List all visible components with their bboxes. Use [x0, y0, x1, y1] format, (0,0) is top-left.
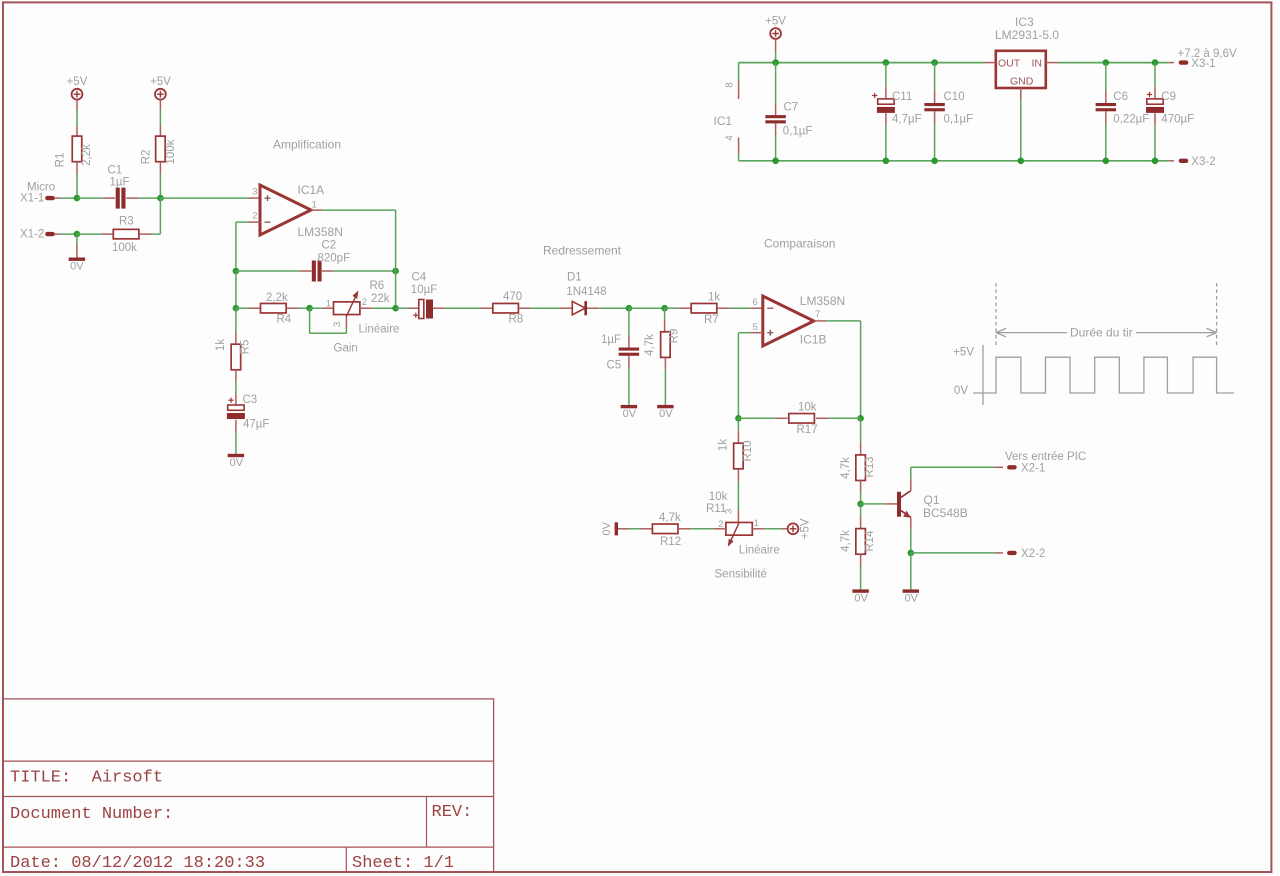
svg-text:C1: C1 — [108, 165, 123, 177]
resistor R14 — [856, 529, 866, 555]
node micro junction — [74, 195, 81, 202]
wire R3 to R2 node — [139, 233, 151, 235]
svg-text:1N4148: 1N4148 — [566, 286, 606, 298]
wire Q1 collector up — [910, 479, 912, 491]
ground 0V (R9) — [657, 405, 673, 408]
svg-text:2: 2 — [252, 211, 257, 222]
node C5 — [626, 305, 633, 312]
connector pad X1-2 — [45, 232, 55, 236]
wire C11 top — [885, 63, 887, 87]
svg-text:Durée du tir: Durée du tir — [1070, 326, 1133, 340]
power +5V supply symbol (R11) — [788, 523, 799, 534]
resistor R8 — [493, 303, 519, 313]
wire R8 to D1 — [518, 307, 530, 309]
svg-text:+5V: +5V — [765, 16, 786, 28]
svg-text:LM358N: LM358N — [800, 294, 845, 308]
svg-text:R17: R17 — [797, 424, 818, 436]
svg-text:10µF: 10µF — [411, 284, 437, 296]
wire base node to Q1 — [861, 503, 885, 505]
wire C7 top — [775, 63, 777, 103]
wire GND pin — [1020, 88, 1022, 100]
op-amp IC1A plus input mark — [265, 197, 271, 199]
transistor Q1 — [897, 492, 901, 517]
svg-text:X3-2: X3-2 — [1191, 156, 1215, 168]
title block REV divider — [426, 797, 428, 848]
op-amp IC1A minus input mark — [265, 221, 271, 223]
wire C6 top — [1105, 63, 1107, 91]
svg-text:X1-2: X1-2 — [20, 229, 44, 241]
svg-text:0V: 0V — [659, 408, 673, 420]
svg-text:R12: R12 — [660, 536, 681, 548]
svg-text:R13: R13 — [864, 456, 876, 477]
capacitor C11 polarized — [878, 99, 894, 104]
node emitter — [908, 550, 915, 557]
wire top rail left segment — [739, 62, 984, 64]
svg-text:2,2k: 2,2k — [81, 144, 93, 166]
node R4-R5 — [233, 305, 240, 312]
capacitor C10 — [924, 103, 944, 106]
wire IC1A output — [311, 209, 322, 211]
node R17 left — [735, 415, 742, 422]
wire top rail right segment — [1058, 62, 1169, 64]
wire C9 top — [1154, 63, 1156, 87]
node GND bottom — [1018, 158, 1025, 165]
op-amp IC1B minus input mark — [767, 307, 773, 309]
wire R9 down — [664, 308, 666, 319]
op-amp IC1B plus input mark — [767, 332, 773, 334]
svg-text:0V: 0V — [70, 261, 84, 273]
wire feedback to C2 — [236, 270, 300, 272]
svg-text:0V: 0V — [954, 385, 968, 397]
capacitor C6 — [1096, 103, 1116, 106]
svg-text:R7: R7 — [704, 314, 719, 326]
svg-text:C3: C3 — [243, 394, 258, 406]
svg-text:0,1µF: 0,1µF — [944, 114, 974, 126]
svg-text:+5V: +5V — [150, 76, 171, 88]
node R17 right — [857, 415, 864, 422]
svg-text:Sensibilité: Sensibilité — [715, 569, 767, 581]
node base — [857, 501, 864, 508]
node X1-2 junction — [74, 231, 81, 238]
svg-text:6: 6 — [753, 297, 758, 308]
svg-text:4,7k: 4,7k — [840, 530, 852, 552]
svg-text:LM358N: LM358N — [298, 225, 343, 239]
svg-text:X2-2: X2-2 — [1021, 548, 1045, 560]
svg-text:1µF: 1µF — [601, 334, 621, 346]
node C6 top — [1103, 59, 1110, 66]
svg-text:22k: 22k — [371, 293, 390, 305]
svg-text:Sheet: 1/1: Sheet: 1/1 — [352, 854, 454, 873]
svg-text:4,7k: 4,7k — [659, 512, 681, 524]
svg-text:IC1: IC1 — [714, 114, 733, 128]
wire D1 to C5 node — [587, 307, 599, 309]
wire R10 down — [737, 418, 739, 430]
svg-text:10k: 10k — [798, 401, 817, 413]
wire node to C1 — [77, 197, 103, 199]
wire R12 to pot R11 pin2 — [678, 528, 690, 530]
title block line above TITLE row — [3, 760, 494, 762]
svg-text:470: 470 — [503, 291, 522, 303]
node feedback left — [233, 268, 240, 275]
wire R4 to pot node — [286, 307, 298, 309]
ground 0V (input) — [69, 258, 85, 261]
regulator IC3 box — [996, 51, 1046, 88]
wire R9 node to R7 — [665, 307, 679, 309]
wire C3 to ground — [235, 420, 237, 432]
svg-text:0,1µF: 0,1µF — [783, 126, 813, 138]
svg-text:IC3: IC3 — [1015, 15, 1034, 29]
power +5V supply symbol (R2) — [155, 89, 166, 100]
svg-text:IN: IN — [1032, 58, 1043, 70]
wire C5 node to R9 node — [629, 307, 665, 309]
node C7 top — [772, 59, 779, 66]
wire C7 bottom — [775, 123, 777, 135]
title block Sheet divider — [345, 847, 347, 872]
svg-text:IC1A: IC1A — [298, 183, 325, 197]
op-amp IC1A — [260, 185, 311, 235]
wire R9 to ground — [664, 357, 666, 369]
svg-text:0V: 0V — [623, 408, 637, 420]
wire +5V to top rail — [775, 39, 777, 51]
wire R7 to IC1B pin6 — [717, 307, 729, 309]
svg-text:Amplification: Amplification — [273, 138, 341, 152]
wire C1 to node R2 — [126, 197, 138, 199]
capacitor C7 — [765, 115, 785, 118]
node C10 bottom — [931, 158, 938, 165]
svg-text:1: 1 — [326, 299, 331, 310]
node C9 top — [1152, 59, 1159, 66]
connector pad X3-1 — [1179, 60, 1189, 64]
wire +5V to R2 — [159, 100, 161, 110]
waveform pulse train — [973, 357, 1234, 393]
svg-text:2: 2 — [362, 297, 367, 308]
title block outline — [3, 699, 494, 872]
resistor R13 — [856, 455, 866, 481]
wire R5 to C3 — [235, 370, 237, 382]
wire C4 to R8 — [433, 307, 445, 309]
svg-text:R4: R4 — [277, 314, 292, 326]
svg-text:+5V: +5V — [800, 518, 812, 539]
wire R5 down — [235, 308, 237, 332]
wire feedback left down — [235, 271, 237, 308]
ground 0V (Q1) — [903, 589, 919, 592]
wire R14 down — [860, 504, 862, 516]
connector pad X2-2 — [1007, 551, 1017, 555]
wire C5 down — [628, 308, 630, 335]
svg-text:D1: D1 — [567, 272, 582, 284]
svg-text:IC1B: IC1B — [800, 333, 827, 347]
node R2 junction — [157, 195, 164, 202]
waveform dashed line left — [995, 283, 997, 346]
resistor R17 — [789, 414, 815, 424]
svg-text:10k: 10k — [709, 491, 728, 503]
node feedback right — [392, 268, 399, 275]
wire node to IC1A pin3 — [160, 197, 248, 199]
resistor R5 — [231, 344, 241, 370]
ground 0V rotated (R12) — [615, 522, 618, 535]
wire IC1B pin5 left — [751, 332, 763, 334]
svg-text:1: 1 — [312, 200, 317, 211]
svg-text:3: 3 — [252, 187, 257, 198]
svg-text:4,7k: 4,7k — [644, 334, 656, 356]
power +5V supply symbol (rail) — [770, 28, 781, 39]
resistor R12 — [652, 524, 678, 534]
wire R13 to base node — [860, 481, 862, 493]
resistor R9 — [661, 332, 671, 358]
resistor R7 — [691, 303, 717, 313]
svg-text:Date: 08/12/2012 18:20:33: Date: 08/12/2012 18:20:33 — [10, 854, 265, 873]
svg-text:X2-1: X2-1 — [1021, 462, 1045, 474]
wire feedback right down — [395, 271, 397, 308]
node pot wiper net — [306, 305, 313, 312]
connector pad X3-2 — [1179, 159, 1189, 163]
wire emitter to ground — [910, 553, 912, 590]
wire X1-2 node to ground — [76, 234, 78, 245]
svg-text:BC548B: BC548B — [923, 506, 968, 520]
svg-text:R1: R1 — [55, 153, 67, 168]
svg-text:GND: GND — [1010, 76, 1034, 88]
svg-text:R10: R10 — [742, 440, 754, 461]
capacitor C2 — [312, 261, 316, 282]
svg-text:3: 3 — [723, 509, 734, 514]
capacitor C9 polarized — [1147, 99, 1163, 104]
potentiometer R6 — [334, 302, 360, 315]
svg-text:X1-1: X1-1 — [20, 193, 44, 205]
wire pot R11 pin1 to +5V — [752, 528, 764, 530]
svg-text:OUT: OUT — [998, 58, 1021, 70]
svg-text:Gain: Gain — [334, 343, 358, 355]
capacitor C5 — [619, 348, 639, 351]
svg-text:R6: R6 — [370, 280, 385, 292]
svg-text:Vers entrée PIC: Vers entrée PIC — [1005, 451, 1086, 463]
svg-text:470µF: 470µF — [1161, 114, 1194, 126]
svg-text:R2: R2 — [141, 150, 153, 165]
svg-text:8: 8 — [725, 82, 736, 88]
svg-text:LM2931-5.0: LM2931-5.0 — [995, 28, 1059, 42]
potentiometer R11 — [726, 522, 752, 535]
svg-text:X3-1: X3-1 — [1191, 58, 1215, 70]
wire R13 down from node — [860, 418, 862, 442]
connector pad X2-1 — [1007, 465, 1017, 469]
wire bottom rail — [739, 160, 1169, 162]
svg-text:Q1: Q1 — [924, 493, 940, 507]
wire R10 to pot R11 — [737, 469, 739, 481]
wire to X3-2 — [1169, 160, 1174, 162]
wire node to pot pin1 — [310, 307, 322, 309]
svg-text:5: 5 — [753, 322, 758, 333]
svg-text:4,7k: 4,7k — [840, 457, 852, 479]
IC1 power pin 4 — [738, 154, 740, 161]
wire IN pin — [1046, 62, 1058, 64]
wire IC1A pin2 feedback — [248, 221, 260, 223]
node C11 bottom — [883, 158, 890, 165]
svg-text:+5V: +5V — [67, 76, 88, 88]
svg-text:Comparaison: Comparaison — [764, 237, 835, 251]
svg-text:1k: 1k — [708, 292, 720, 304]
diode D1 — [572, 301, 585, 314]
svg-text:R14: R14 — [864, 530, 876, 552]
op-amp IC1B — [763, 296, 814, 346]
wire collector to X2-1 — [911, 466, 995, 468]
svg-text:C10: C10 — [944, 91, 965, 103]
ground 0V (R14) — [852, 589, 868, 592]
svg-text:4,7µF: 4,7µF — [892, 114, 922, 126]
svg-text:Redressement: Redressement — [543, 244, 622, 258]
svg-text:R8: R8 — [509, 314, 524, 326]
wire X1-1 to node — [60, 197, 77, 199]
title block line above Date row — [3, 846, 494, 848]
wire pot pin3 loop — [309, 308, 311, 333]
waveform arrow line left — [996, 332, 1067, 334]
node C11 top — [883, 59, 890, 66]
wire C5 to ground — [628, 356, 630, 368]
node C4 input — [392, 305, 399, 312]
svg-text:100k: 100k — [165, 139, 177, 164]
wire +5V to R1 — [76, 100, 78, 110]
svg-text:Linéaire: Linéaire — [739, 544, 780, 556]
svg-text:820pF: 820pF — [318, 253, 351, 265]
wire R14 to ground — [860, 554, 862, 566]
ground 0V (C3) — [228, 454, 244, 457]
svg-text:1: 1 — [754, 518, 759, 529]
wire C10 top — [934, 63, 936, 91]
svg-text:7: 7 — [815, 309, 820, 320]
svg-text:C6: C6 — [1113, 91, 1128, 103]
capacitor C1 — [116, 188, 120, 209]
svg-text:C2: C2 — [322, 240, 337, 252]
svg-text:1µF: 1µF — [110, 177, 130, 189]
svg-text:0V: 0V — [854, 592, 868, 604]
node C6 bottom — [1103, 158, 1110, 165]
svg-text:Linéaire: Linéaire — [359, 324, 400, 336]
title block line above Document row — [3, 796, 494, 798]
wire Q1 emitter down — [910, 517, 912, 529]
capacitor C3 polarized — [228, 405, 244, 410]
wire C11 bottom — [885, 113, 887, 125]
wire node to R4 — [236, 307, 248, 309]
resistor R3 — [113, 229, 139, 239]
resistor R10 — [734, 443, 744, 469]
power +5V supply symbol (R1) — [72, 89, 83, 100]
node C7 bottom — [772, 158, 779, 165]
svg-text:R3: R3 — [119, 216, 134, 228]
wire C2 to right node — [322, 270, 334, 272]
wire emitter to X2-2 — [911, 552, 995, 554]
svg-text:3: 3 — [332, 322, 343, 327]
IC1 power pin 8 — [738, 63, 740, 81]
waveform axis vertical — [982, 345, 984, 405]
svg-text:REV:: REV: — [432, 803, 473, 822]
svg-text:0,22µF: 0,22µF — [1113, 114, 1149, 126]
node R9 — [661, 305, 668, 312]
wire C6 bottom — [1105, 111, 1107, 123]
svg-text:2,2k: 2,2k — [266, 292, 288, 304]
connector pad X1-1 — [45, 196, 55, 200]
svg-text:TITLE: Airsoft: TITLE: Airsoft — [10, 769, 163, 788]
ground 0V (C5) — [621, 405, 637, 408]
svg-text:100k: 100k — [112, 242, 137, 254]
waveform dashed line right — [1216, 283, 1218, 346]
svg-text:0V: 0V — [230, 457, 244, 469]
resistor R2 — [159, 126, 161, 136]
svg-text:C9: C9 — [1161, 91, 1176, 103]
svg-text:1k: 1k — [718, 439, 730, 451]
wire gnd to R12 — [618, 528, 629, 530]
wire OUT pin — [984, 62, 996, 64]
svg-text:1k: 1k — [215, 339, 227, 351]
wire IC1B output — [814, 320, 826, 322]
wire R17 left stub — [775, 417, 787, 419]
wire X1-2 to node — [60, 233, 77, 235]
svg-text:0V: 0V — [905, 592, 919, 604]
capacitor C4 polarized — [396, 307, 408, 309]
wire C10 bottom — [934, 111, 936, 123]
svg-text:Document Number:: Document Number: — [10, 805, 173, 824]
svg-text:C7: C7 — [784, 102, 799, 114]
wire C9 bottom — [1154, 113, 1156, 125]
svg-text:0V: 0V — [601, 521, 613, 535]
svg-text:C5: C5 — [607, 360, 622, 372]
wire node to R17 right — [828, 417, 860, 419]
svg-text:+5V: +5V — [953, 347, 974, 359]
resistor R1 — [76, 126, 78, 136]
svg-text:C4: C4 — [412, 272, 427, 284]
node C9 bottom — [1152, 158, 1159, 165]
wire to X3-1 — [1169, 62, 1174, 64]
svg-text:R9: R9 — [669, 329, 681, 344]
svg-text:C11: C11 — [892, 91, 912, 103]
svg-text:47µF: 47µF — [243, 419, 269, 431]
svg-text:R5: R5 — [240, 340, 252, 355]
wire pot pin2 to C4 node — [360, 307, 372, 309]
node C10 top — [931, 59, 938, 66]
waveform arrow line right — [1136, 332, 1217, 334]
resistor R4 — [261, 303, 287, 313]
wire node to R3 — [77, 233, 101, 235]
svg-text:4: 4 — [725, 135, 736, 141]
